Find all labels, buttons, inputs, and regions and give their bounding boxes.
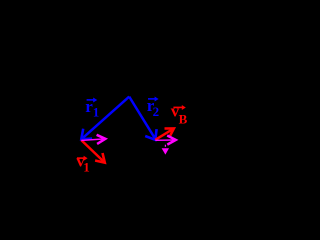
label vB (red) (171, 102, 188, 127)
magenta arrow at left point (81, 135, 105, 144)
svg-text:2: 2 (153, 104, 160, 119)
vector r2 (blue position vector, apex to right point) (129, 97, 156, 140)
svg-text:B: B (179, 112, 188, 127)
vector vB (red velocity at right point) (155, 128, 174, 139)
vector v1 (red velocity at left point) (81, 140, 105, 163)
label r2 (blue) (147, 96, 159, 119)
label v1 (red) (76, 151, 90, 174)
magenta arrow at right point (155, 136, 176, 145)
svg-text:1: 1 (83, 159, 90, 174)
svg-text:1: 1 (93, 105, 100, 120)
vector r1 (blue position vector, apex to left point) (81, 97, 129, 140)
label r1 (blue) (85, 97, 99, 120)
magenta down arrowhead (short vertical component arrow) (162, 145, 169, 155)
